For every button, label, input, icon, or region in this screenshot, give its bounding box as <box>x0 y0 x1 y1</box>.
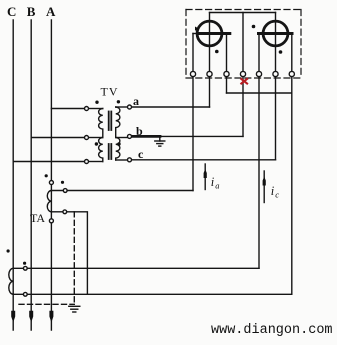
meter element 1 vertical diameter / drop to wire a <box>209 13 211 108</box>
svg-text:i: i <box>211 175 215 189</box>
TA1 primary terminal bottom <box>49 219 53 223</box>
svg-text:i: i <box>271 184 275 198</box>
svg-text:C: C <box>7 4 16 19</box>
TV primary stubs <box>89 108 103 110</box>
label ia <box>211 175 220 191</box>
TV primary winding <box>99 109 103 162</box>
wire: coil2 left end down through terminal 5 to line L1 <box>258 34 260 269</box>
svg-text:c: c <box>138 147 144 161</box>
TA1 secondary winding on A line <box>47 191 51 212</box>
load arrow C <box>11 311 15 323</box>
wire: top wire down to terminal 4 <box>242 13 244 75</box>
fault mark X on terminal 4 wire <box>241 79 247 84</box>
meter element 1 current coil line <box>193 33 199 35</box>
load arrow B <box>29 311 33 323</box>
meter terminal 7 <box>289 71 294 76</box>
wire: coil2 right end down through terminal 7 to line L2 <box>291 34 293 295</box>
meter terminal 1 <box>190 71 195 76</box>
TA2 k1 terminal <box>23 266 27 270</box>
meter terminal 2 <box>207 71 212 76</box>
wire b thick: TV b to ground <box>130 135 161 138</box>
svg-text:a: a <box>133 94 139 108</box>
node a label <box>133 94 139 108</box>
top voltage wire between elements <box>210 12 276 14</box>
wattmeter element 2 circle <box>263 21 288 46</box>
TV secondary stubs <box>116 106 128 108</box>
TA1 k2 terminal <box>63 210 67 214</box>
current arrow ic <box>263 171 266 203</box>
svg-text:TV: TV <box>101 85 119 99</box>
bus A label <box>46 4 56 19</box>
polarity dot element 2 left <box>252 25 256 29</box>
wire: terminal 4 down to wire b <box>242 74 244 136</box>
svg-text:TA: TA <box>30 211 45 225</box>
node b label <box>136 124 143 138</box>
wire b thin: ground point to terminal 4 drop <box>160 135 243 137</box>
wire B-phase to TV primary 2 <box>31 137 86 139</box>
svg-text:A: A <box>46 4 56 19</box>
wire: coil1 left end down to terminal 1 <box>192 34 194 191</box>
svg-text:c: c <box>275 190 279 200</box>
wire TA1 k2 right then down to line L2 <box>51 212 87 294</box>
wire L1: TA2 k1 to terminal 5 drop <box>13 267 259 269</box>
transformer TA label <box>30 211 45 225</box>
svg-text:www.diangon.com: www.diangon.com <box>211 323 333 338</box>
TA2 k2 terminal <box>23 292 27 296</box>
load arrow A <box>49 311 53 323</box>
polarity mark element 1 left <box>195 27 199 31</box>
TV secondary winding <box>116 107 120 160</box>
meter terminal 6 <box>273 71 278 76</box>
polarity dot element 1 below <box>215 50 219 54</box>
current link line terminals 3-7 <box>227 92 292 94</box>
TV primary terminals <box>85 107 89 164</box>
TV core <box>109 112 112 160</box>
bus C wire <box>12 20 14 330</box>
bus A wire <box>50 20 52 330</box>
earth link dashed horizontal <box>19 303 74 305</box>
wire TA1 k1 to terminal 1 <box>51 190 193 192</box>
ground (b wire) <box>155 136 165 146</box>
wire: coil1 right end down to terminal 3 and link line <box>226 34 228 94</box>
wire L2: TA2 k2 to terminal 7 drop <box>13 293 292 295</box>
TA2 polarity dot above k1 <box>23 262 26 265</box>
TA1 k1 terminal <box>63 189 67 193</box>
watermark <box>211 323 333 338</box>
TA1 primary terminal top <box>49 181 53 185</box>
meter element 2 vertical diameter / drop to wire c <box>275 13 277 160</box>
svg-text:B: B <box>27 4 36 19</box>
bus B label <box>27 4 36 19</box>
meter terminal 4 <box>240 71 245 76</box>
wire A-phase to TV primary 1 <box>51 108 86 110</box>
earth link dashed vertical <box>73 212 75 304</box>
meter box dashed enclosure <box>186 10 301 79</box>
bus C label <box>7 4 16 19</box>
TV secondary terminals <box>128 105 132 162</box>
node c label <box>138 147 144 161</box>
TA1 polarity dot left <box>45 174 48 177</box>
TA1 polarity dot right <box>61 181 64 184</box>
meter terminal 5 <box>256 71 261 76</box>
label ic <box>271 184 280 200</box>
TA2 secondary winding on C line <box>9 268 13 294</box>
meter element 2 current coil line <box>259 32 293 35</box>
polarity dot element 2 below <box>279 50 283 54</box>
bus B wire <box>30 20 32 330</box>
wire a: TV a to meter terminal 2 <box>130 106 210 108</box>
wire C-phase to TV primary 3 <box>13 161 86 163</box>
transformer TV label <box>101 85 119 99</box>
current arrow ia <box>204 164 207 190</box>
wattmeter element 1 circle <box>197 21 222 46</box>
meter terminal 3 <box>224 71 229 76</box>
TA2 polarity dot left <box>7 249 10 252</box>
wire c: TV c to meter terminal 6 drop <box>131 159 276 161</box>
ground (TA secondary) <box>69 306 80 312</box>
TV polarity dots <box>95 100 121 146</box>
svg-text:a: a <box>215 181 219 191</box>
